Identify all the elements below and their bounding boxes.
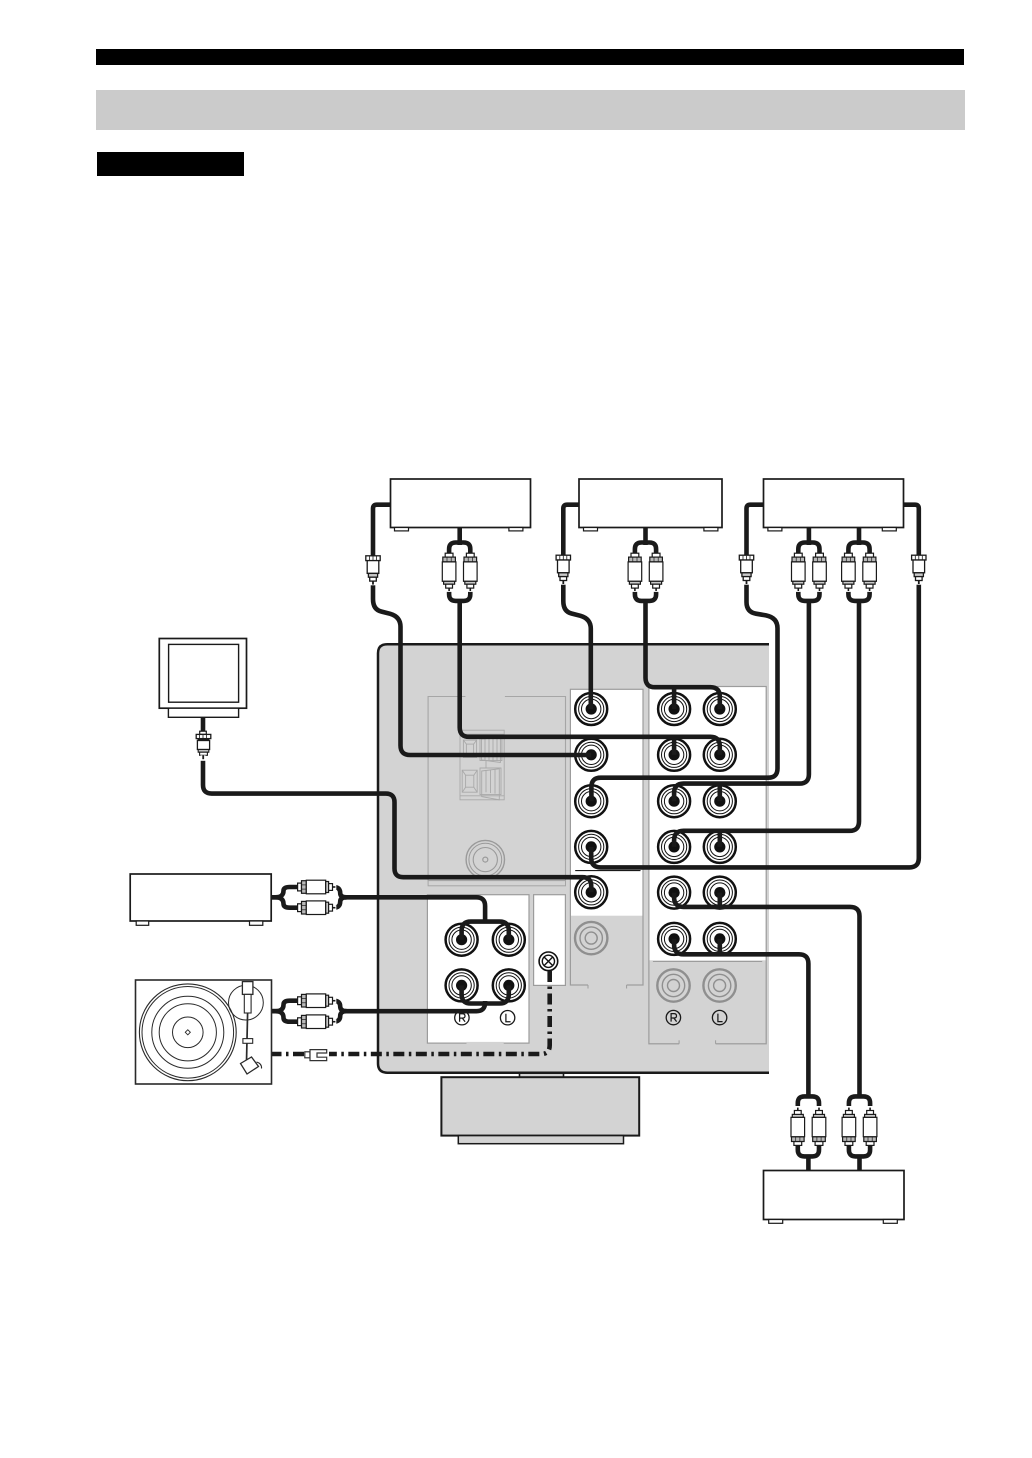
video plug TV monitor — [196, 731, 211, 761]
R label bottom-left panel — [455, 1011, 469, 1025]
wire: box3 optical to video jack 3 — [591, 505, 777, 802]
speaker terminal panel outline — [428, 697, 565, 881]
ground spade terminal — [305, 1050, 327, 1061]
rca plugs box3 pair 2 — [842, 553, 856, 592]
wire: audio row 5 to bottom component pair 2 — [674, 893, 859, 1098]
speaker panel lower band — [428, 881, 565, 886]
receiver outline restroke — [378, 644, 769, 1072]
component box 2 — [579, 479, 722, 528]
wire bridge bottom pair 1 — [798, 1096, 819, 1106]
ground wire dash-dot — [272, 971, 550, 1054]
wire bridge box3 pair 1 — [798, 543, 819, 557]
receiver stand connector tab — [520, 1072, 564, 1078]
TV monitor — [159, 639, 246, 718]
pedestal foot strip — [458, 1136, 623, 1144]
component box 4 bottom — [764, 1171, 905, 1220]
rca plugs box2 pair — [628, 553, 642, 592]
turntable — [136, 980, 272, 1084]
component box 3 — [764, 479, 904, 528]
rca plugs box3 pair 1 — [792, 553, 806, 592]
ground terminal strip — [534, 895, 566, 986]
rca plugs turntable pair — [298, 994, 337, 1008]
coax plug box3 right — [912, 555, 926, 585]
wire: box2 optical to video jack 1 — [563, 505, 591, 709]
section label black box — [97, 152, 245, 176]
wire branch into row4 right jack — [717, 831, 722, 847]
video jack strip panel — [570, 689, 643, 988]
wire branch from row6 right jack — [717, 939, 722, 954]
phono/cd jack panel bottom-left — [427, 895, 529, 1043]
speaker terminal block art — [460, 730, 504, 800]
wire fork into phono jacks — [462, 985, 509, 1003]
wire: TV monitor to video jack 5 — [203, 718, 591, 893]
ghost jack video strip — [575, 922, 607, 954]
wire branch into row3 right jack — [717, 784, 722, 802]
optical plug box2 — [556, 555, 570, 585]
wire branch into row1 left jack — [672, 687, 677, 709]
wire: video jack 4 to box3 right plug — [591, 505, 919, 868]
component box 5 cd player — [130, 874, 271, 921]
coax antenna knob — [466, 840, 504, 878]
wire bridge box3 pair 2 — [848, 543, 869, 557]
wire: box3 pair 1 to audio row 3 — [807, 528, 812, 546]
optical plug box3 — [739, 555, 753, 585]
rca plugs bottom pair 2 — [842, 1107, 856, 1146]
L label right panel — [712, 1010, 726, 1024]
rca plugs box1 pair — [442, 553, 456, 592]
audio jacks right panel — [658, 693, 736, 955]
wire: box2 stereo pair to audio row 1 — [643, 528, 648, 546]
wire fork into cd jacks — [462, 922, 509, 940]
wire bridge box2 pair — [635, 543, 656, 557]
receiver rear panel body — [378, 644, 769, 1072]
optical plug box1 — [366, 556, 380, 586]
header gray band — [96, 90, 965, 130]
header black title bar — [96, 49, 964, 66]
audio in/out jack panel right — [649, 687, 766, 1044]
wire: cd player pair to bottom-left top jacks — [271, 887, 298, 897]
wire: audio row 6 to bottom component pair 1 — [674, 939, 808, 1098]
ground screw terminal — [539, 952, 558, 971]
wire: turntable pair to phono jacks — [272, 1001, 299, 1012]
separator line video strip — [575, 870, 640, 872]
phono/cd jacks bottom-left panel — [446, 924, 525, 1002]
L label bottom-left panel — [500, 1011, 514, 1025]
rca plugs bottom pair 1 — [791, 1107, 805, 1146]
ghost jacks right panel — [657, 969, 689, 1001]
wire bridge box1 pair — [449, 543, 470, 557]
video jacks middle column — [575, 693, 607, 908]
wire branch from row5 right jack — [717, 893, 722, 907]
wire: box1 optical to video jack 2 — [373, 505, 591, 755]
receiver pedestal (zoom cutout) — [441, 1077, 639, 1135]
rca plugs cd player pair — [298, 880, 337, 894]
wire: box3 pair 2 to audio row 4 — [857, 528, 862, 546]
R label right panel — [666, 1010, 680, 1024]
wire branch into row2 left jack — [672, 737, 677, 755]
wire bridge bottom pair 2 — [849, 1096, 870, 1106]
component box 1 — [391, 479, 531, 528]
wire: box1 stereo pair to audio row 2 — [457, 528, 462, 546]
